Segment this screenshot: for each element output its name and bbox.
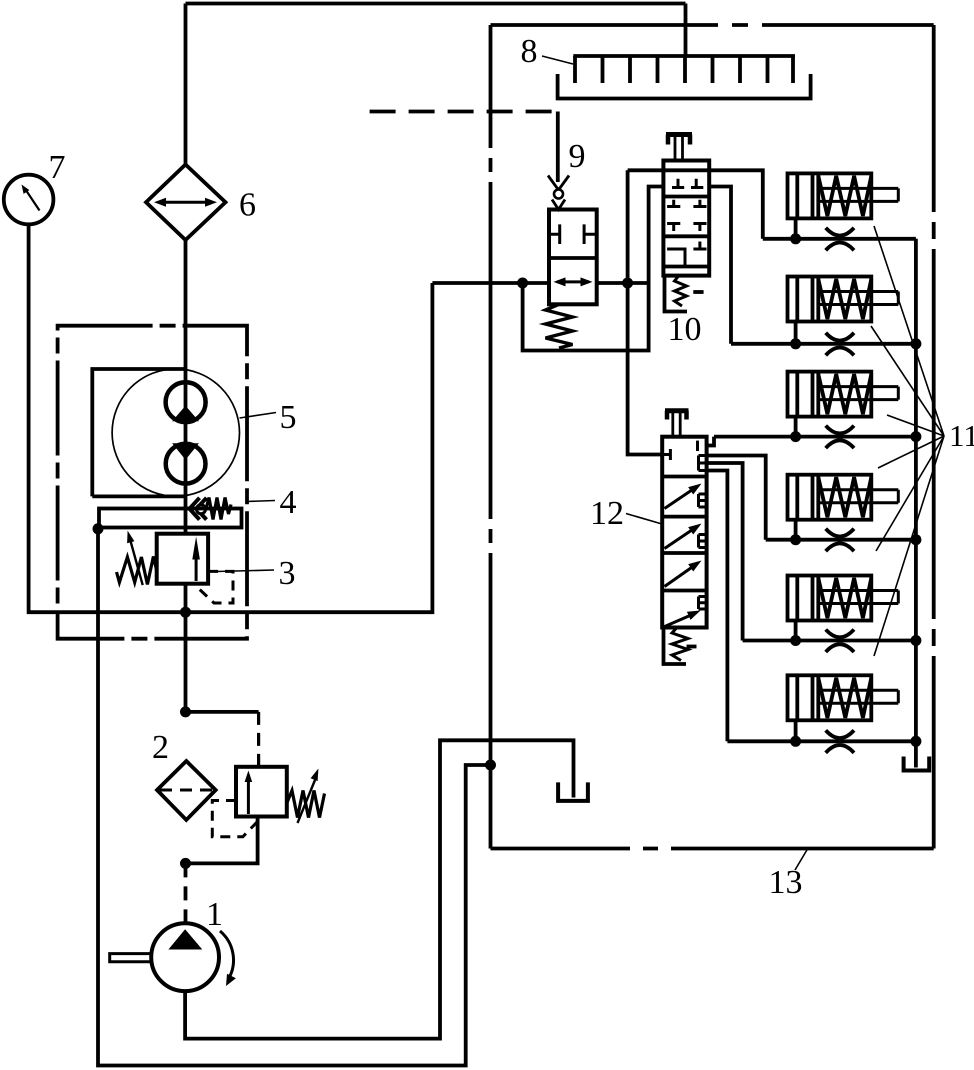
pump element upper: [166, 382, 206, 422]
node cylinder 11d: [790, 534, 801, 545]
restrictor 11e: [826, 630, 854, 653]
label 10: [668, 311, 702, 348]
label 4: [247, 484, 297, 521]
valve 9 through arrow: [554, 277, 593, 286]
wire manifold 2: [731, 342, 916, 346]
wire manifold 6: [727, 739, 916, 743]
spring of valve 10: [675, 276, 687, 306]
wire supply riser: [628, 170, 663, 454]
wire manifold 3: [714, 435, 916, 439]
svg-text:1: 1: [206, 896, 223, 933]
restrictor 11f: [826, 730, 854, 753]
wire valve 10 top port left: [628, 168, 664, 172]
variable pump 5 outer circle: [112, 369, 239, 496]
valve 12 arrow cell 3: [665, 561, 702, 587]
node manifold 6 drain: [910, 736, 921, 747]
cylinder 11a: [788, 173, 899, 218]
valve 12 inlet mark: [662, 449, 670, 460]
valve 12 top right port tick: [696, 441, 699, 451]
node cylinder 11c: [790, 431, 801, 442]
svg-text:11: 11: [949, 418, 974, 453]
node manifold 2 drain: [910, 338, 921, 349]
wire manifold 1: [763, 237, 916, 241]
valve 12 arrow cell 4: [664, 611, 701, 628]
node manifold 4 drain: [910, 534, 921, 545]
pilot line of valve 3 (dashed): [197, 571, 233, 603]
wire main vertical through pump: [184, 240, 188, 534]
sequencing valve 12 body: [662, 437, 706, 628]
svg-text:13: 13: [769, 864, 803, 901]
sequencing valve 12 handle: [665, 411, 689, 437]
svg-text:7: 7: [49, 149, 66, 186]
wire valve 10 top port right to manifold 1: [709, 170, 763, 239]
node bypass top: [180, 706, 191, 717]
wire manifold 4: [766, 538, 916, 542]
wire cylinder 11b port: [794, 322, 798, 344]
label 11 pointers: [871, 226, 944, 656]
node suction junction: [180, 858, 191, 869]
rotation arrow of pump 1: [220, 931, 236, 986]
spring seat of valve 10: [665, 276, 688, 312]
wire pump outlet: [184, 584, 188, 712]
svg-text:8: 8: [521, 33, 538, 70]
valve 12 comb B: [699, 494, 707, 507]
filter 2: [157, 761, 216, 820]
wire main top line: [186, 4, 686, 165]
pilot line of relief valve (dashed): [212, 801, 258, 837]
spring of valve 12: [672, 628, 688, 661]
node cylinder 11a: [790, 233, 801, 244]
wire valve 12 outlet jog to manifold 3: [707, 437, 714, 446]
wire valve 12 outlet to manifold 6: [707, 471, 728, 742]
cylinder 11b: [788, 277, 899, 322]
wire filter bypass: [186, 710, 259, 714]
pilot dashed line to valve 9: [370, 110, 558, 114]
wire cylinder 11f port: [794, 720, 798, 741]
control piston symbol 4: [190, 498, 232, 520]
tank drain: [904, 757, 930, 771]
wire valve 9 bypass loop: [523, 187, 664, 351]
spring of valve 3: [117, 557, 158, 585]
distributor 8 comb: [573, 56, 795, 83]
wire cylinder 11a port: [794, 218, 798, 238]
wire valve 9 through line: [432, 281, 648, 285]
valve 12 comb C: [699, 535, 707, 548]
label 11: [949, 418, 974, 453]
cylinder 11f: [788, 675, 899, 720]
pilot arrow of valve 9: [548, 176, 569, 210]
node cylinder 11e: [790, 635, 801, 646]
label 7: [49, 149, 66, 186]
wire suction dashed: [184, 863, 188, 923]
valve 12 top comb: [699, 456, 707, 471]
wire cylinder 11c port: [794, 417, 798, 437]
node cylinder 11f: [790, 736, 801, 747]
valve 10 cell A marks: [672, 179, 703, 188]
pump mount rectangle: [92, 369, 185, 496]
wire manifold 5: [743, 639, 916, 643]
svg-text:10: 10: [668, 311, 702, 348]
pressure gauge 7: [4, 175, 54, 225]
wire case drain: [98, 529, 491, 1066]
label 9: [569, 138, 586, 175]
wire relief outlet: [186, 817, 258, 864]
label 2: [152, 729, 169, 766]
restrictor 11c: [826, 426, 854, 449]
svg-text:3: 3: [279, 555, 296, 592]
restrictor 11d: [826, 529, 854, 552]
label 3: [216, 555, 296, 592]
wire valve 12 outlet to manifold 4: [707, 456, 766, 540]
restrictor 11a: [826, 228, 854, 251]
cylinder 11d: [788, 475, 899, 520]
label 12: [590, 495, 662, 532]
wire cylinder 11e port: [794, 621, 798, 641]
wire pump 1 outlet to tank: [185, 740, 573, 1038]
selector valve 10 body: [663, 161, 709, 276]
svg-text:9: 9: [569, 138, 586, 175]
wire pilot drop: [556, 112, 560, 183]
distributor 8 trough: [558, 74, 811, 99]
svg-text:12: 12: [590, 495, 624, 532]
label 8: [521, 33, 574, 70]
relief valve of filter 2: [236, 767, 287, 817]
spring dash of valve 10: [693, 290, 703, 294]
enclosure 13 (chain line frame): [491, 25, 934, 849]
spring of valve 9: [546, 304, 573, 348]
pump element lower: [166, 443, 206, 483]
adjust arrow of relief valve: [298, 769, 319, 824]
valve 12 arrow cell 1: [665, 484, 702, 509]
label 1: [206, 896, 223, 933]
svg-text:6: 6: [239, 187, 256, 224]
filter/cooler 6: [146, 165, 226, 241]
valve 12 arrow cell 2: [665, 524, 702, 549]
node manifold 5 drain: [910, 635, 921, 646]
wire gauge line: [29, 224, 433, 612]
unloading valve 9: [549, 210, 597, 305]
node cylinder 11b: [790, 338, 801, 349]
spring dash of valve 12: [687, 645, 697, 649]
node right of valve 9: [622, 278, 633, 289]
cylinder 11e: [788, 576, 899, 621]
label 13: [769, 849, 808, 901]
shaft of pump 1: [110, 954, 152, 962]
label 5: [240, 399, 297, 436]
valve 9 closed position marks: [549, 224, 597, 244]
svg-text:5: 5: [280, 399, 297, 436]
wire valve 10 right port to manifold 2: [709, 187, 731, 344]
spring seat of valve 12: [664, 628, 687, 665]
node outlet junction: [180, 607, 191, 618]
node left of valve 9: [517, 278, 528, 289]
node manifold 3 drain: [910, 431, 921, 442]
enclosure pump unit (dash-dot box): [58, 326, 247, 639]
restrictor 11b: [826, 333, 854, 356]
label 6: [239, 187, 256, 224]
node drain tap: [93, 523, 104, 534]
regulator valve 3: [157, 534, 208, 584]
valve 10 cell C marks: [667, 242, 706, 267]
svg-text:4: 4: [280, 484, 297, 521]
wire drain header: [914, 239, 918, 768]
selector valve 10 handle: [666, 135, 692, 161]
wire valve 12 outlet to manifold 5: [707, 463, 743, 641]
pilot feed dashed: [257, 712, 260, 767]
pump 1: [151, 923, 219, 991]
cylinder 11c: [788, 372, 899, 417]
adjust arrow of valve 3: [127, 531, 143, 586]
stroke control cylinder (thin rect): [99, 509, 242, 528]
node drain join: [485, 760, 496, 771]
spring of relief valve: [287, 791, 325, 818]
tank under pump line: [558, 782, 588, 801]
wire cylinder 11d port: [794, 520, 798, 540]
valve 10 cell B marks: [667, 200, 706, 231]
svg-text:2: 2: [152, 729, 169, 766]
valve 12 comb D: [699, 597, 707, 610]
